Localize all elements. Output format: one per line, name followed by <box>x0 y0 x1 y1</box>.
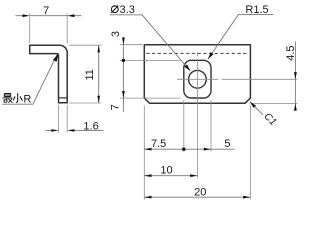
svg-text:5: 5 <box>224 138 230 150</box>
dimension 11 dim line <box>98 45 100 103</box>
svg-text:11: 11 <box>84 69 96 80</box>
svg-text:7: 7 <box>43 5 49 17</box>
svg-text:10: 10 <box>160 165 172 177</box>
dimension chain dot at slot top <box>122 59 125 62</box>
extension line slot top left <box>120 59 180 61</box>
extension line right edge down <box>249 105 251 199</box>
leader line for minimum-R <box>2 54 57 104</box>
dimension 20 arrow left <box>144 196 151 199</box>
svg-text:20: 20 <box>194 187 206 199</box>
slot rounded rectangle <box>184 60 211 98</box>
dimension 1.6 arrow left (pointing right) <box>51 129 58 132</box>
leader arrow minimum-R <box>53 54 58 62</box>
horizontal centerline <box>177 78 297 80</box>
svg-text:7.5: 7.5 <box>151 138 166 150</box>
vertical centerline <box>196 52 198 177</box>
dimension 3 arrow (down at top edge) <box>122 38 125 45</box>
leader C1 arrow <box>250 102 256 108</box>
dimension 7 arrow left <box>23 14 30 17</box>
dimension 5 arrow right <box>204 148 211 151</box>
dimension 20 dim line <box>144 196 250 198</box>
leader diameter 3.3 <box>110 15 189 69</box>
hole circle 3.3 <box>189 70 207 88</box>
dimension 11 arrow up <box>97 45 100 52</box>
dimension 10 dim line <box>144 175 197 177</box>
extension line slot right down <box>210 100 212 151</box>
extension line slot bottom left <box>120 97 181 99</box>
dimension 1.6 arrow right (pointing left) <box>67 129 74 132</box>
extension line top edge left <box>120 44 143 46</box>
dimension 11 arrow down <box>97 96 100 103</box>
leader diameter 3.3 arrow <box>184 65 190 72</box>
label diameter 3.3 symbol <box>111 6 118 13</box>
side view bottom chamfer line <box>59 97 68 99</box>
dimension chain 3 and 7 dim line <box>122 37 124 112</box>
hidden bend line (dashed) <box>146 52 248 54</box>
dimension 7 (top of side view) extension lines <box>30 13 67 43</box>
label minimum-R kanji 小 <box>13 93 22 102</box>
dimension 1.6 dim line and tails <box>45 129 103 131</box>
extension line slot left down <box>183 100 185 151</box>
dimension 20 arrow right <box>243 196 250 199</box>
dimension chain dot at slot left <box>182 148 185 151</box>
dimension 10 arrow left <box>144 174 151 177</box>
dimension 10 arrow right <box>190 174 197 177</box>
svg-text:7: 7 <box>110 104 122 110</box>
svg-text:1.6: 1.6 <box>83 120 98 132</box>
leader R1.5 <box>208 15 274 60</box>
dimension 1.6 extension lines <box>59 105 68 133</box>
dimension row 7.5 and 5 dim line <box>144 148 234 150</box>
label minimum-R kanji 最 <box>3 94 13 103</box>
svg-text:4.5: 4.5 <box>285 45 297 60</box>
side view L-bracket outline <box>30 45 67 102</box>
svg-text:R: R <box>23 93 31 105</box>
dimension 4.5 dim line <box>294 42 296 112</box>
extension line bottom edge right <box>252 102 297 104</box>
svg-text:3: 3 <box>110 31 122 37</box>
front view plate outline with bottom chamfers <box>144 45 250 104</box>
dimension 11 extension lines <box>69 45 101 103</box>
extension line left edge down <box>143 105 145 199</box>
dimension 7.5 arrow left <box>144 148 151 151</box>
dimension 4.5 arrow down at centerline <box>294 72 297 79</box>
leader C1 line <box>251 103 263 115</box>
dimension 4.5 arrow up at bottom edge <box>294 103 297 110</box>
dimension 7 (front view) arrow down <box>122 91 125 98</box>
dimension 7 arrow right <box>67 14 74 17</box>
dimension 7 (top of side view) dim line and tails <box>15 15 81 17</box>
leader R1.5 arrow <box>208 52 214 59</box>
